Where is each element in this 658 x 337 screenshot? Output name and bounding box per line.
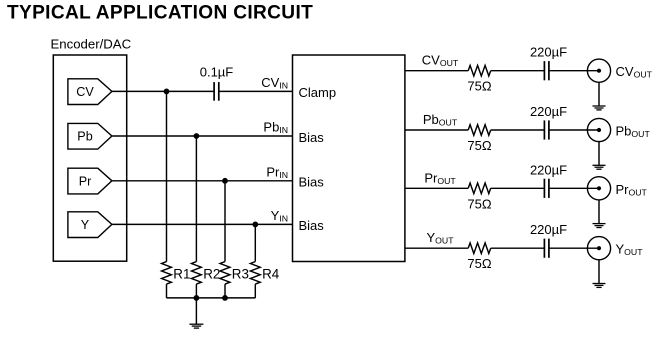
wire capacitor to connector row Pb	[549, 129, 599, 131]
junction node row CV	[164, 89, 170, 95]
svg-text:Bias: Bias	[299, 130, 325, 145]
ground row Y	[593, 283, 606, 285]
resistor R2	[192, 262, 202, 285]
svg-text:Bias: Bias	[299, 175, 325, 190]
ground bus wire	[167, 297, 256, 299]
encoder/DAC block U1	[53, 55, 126, 261]
wire junction to resistor R4	[254, 224, 256, 261]
wire Pr tag to PrIN pin	[112, 180, 293, 182]
capacitor 220uF row Y	[543, 239, 545, 258]
wire resistor to capacitor 220uF row Y	[491, 247, 545, 249]
svg-text:75Ω: 75Ω	[467, 256, 491, 271]
connector jack PrOUT	[587, 177, 610, 200]
resistor R4	[250, 262, 260, 285]
wire junction to resistor R1	[166, 91, 168, 261]
svg-text:Pb: Pb	[77, 130, 92, 144]
connector jack CVOUT	[587, 59, 610, 82]
wire CVOUT pin to resistor	[405, 70, 468, 72]
svg-text:75Ω: 75Ω	[467, 138, 491, 153]
junction ground bus / R3	[222, 295, 228, 301]
encoder output pin CV	[68, 79, 112, 105]
junction ground bus / R2	[194, 295, 200, 301]
svg-text:220µF: 220µF	[530, 45, 567, 60]
ground row Pb	[593, 164, 606, 166]
svg-text:PbOUT: PbOUT	[423, 112, 458, 128]
svg-text:Bias: Bias	[299, 218, 325, 233]
svg-text:0.1µF: 0.1µF	[200, 65, 234, 80]
wire connector to ground row Y	[598, 260, 600, 284]
svg-text:R1: R1	[173, 267, 190, 282]
wire CV tag to capacitor C1	[112, 90, 214, 92]
svg-text:YOUT: YOUT	[616, 242, 644, 258]
wire PrOUT pin to resistor	[405, 187, 468, 189]
svg-text:220µF: 220µF	[530, 162, 567, 177]
svg-text:220µF: 220µF	[530, 222, 567, 237]
wire R3 to ground bus	[224, 284, 226, 298]
svg-text:75Ω: 75Ω	[467, 196, 491, 211]
wire connector to ground row CV	[598, 82, 600, 106]
svg-text:Y: Y	[81, 218, 90, 232]
wire capacitor to connector row CV	[549, 70, 599, 72]
svg-text:YOUT: YOUT	[426, 230, 454, 246]
svg-text:Clamp: Clamp	[299, 85, 337, 100]
resistor 75 ohm row CV	[468, 65, 491, 76]
connector jack YOUT	[587, 237, 610, 260]
wire capacitor to connector row Pr	[549, 187, 599, 189]
svg-text:R2: R2	[203, 267, 220, 282]
wire capacitor to connector row Y	[549, 247, 599, 249]
svg-text:R4: R4	[262, 267, 280, 282]
wire R4 to ground bus	[254, 284, 256, 298]
junction node row Pb	[194, 133, 200, 139]
encoder output pin Pr	[68, 168, 112, 194]
svg-text:CV: CV	[76, 85, 94, 99]
wire Pb tag to PbIN pin	[112, 135, 293, 137]
resistor 75 ohm row Pb	[468, 125, 491, 136]
wire R2 to ground bus	[195, 284, 197, 298]
capacitor C1 0.1uF	[213, 82, 215, 101]
wire resistor to capacitor 220uF row Pr	[491, 187, 545, 189]
resistor 75 ohm row Y	[468, 243, 491, 254]
ground	[195, 298, 197, 324]
resistor R1	[162, 262, 172, 285]
capacitor 220uF row Pb	[543, 120, 545, 139]
svg-text:TYPICAL APPLICATION CIRCUIT: TYPICAL APPLICATION CIRCUIT	[7, 3, 313, 24]
wire resistor to capacitor 220uF row Pb	[491, 129, 545, 131]
capacitor 220uF row CV	[543, 61, 545, 80]
wire connector to ground row Pr	[598, 200, 600, 224]
wire PbOUT pin to resistor	[405, 129, 468, 131]
wire junction to resistor R2	[195, 136, 197, 262]
wire capacitor C1 to CVin pin	[219, 90, 293, 92]
connector jack PbOUT	[587, 118, 610, 141]
resistor R3	[220, 262, 230, 285]
junction node row Pr	[222, 178, 228, 184]
svg-text:75Ω: 75Ω	[467, 79, 491, 94]
svg-text:YIN: YIN	[271, 208, 288, 224]
wire junction to resistor R3	[224, 181, 226, 262]
wire connector to ground row Pb	[598, 141, 600, 165]
capacitor 220uF row Pr	[543, 179, 545, 198]
svg-text:PbOUT: PbOUT	[616, 124, 651, 140]
wire YOUT pin to resistor	[405, 247, 468, 249]
ground row CV	[593, 105, 606, 107]
encoder output pin Y	[68, 212, 112, 238]
junction node row Y	[252, 222, 258, 228]
svg-text:PrOUT: PrOUT	[424, 170, 456, 186]
svg-text:220µF: 220µF	[530, 104, 567, 119]
ground row Pr	[593, 223, 606, 225]
svg-text:Pr: Pr	[79, 174, 92, 188]
svg-text:R3: R3	[232, 267, 249, 282]
svg-text:CVOUT: CVOUT	[422, 53, 459, 69]
wire Y tag to YIN pin	[112, 223, 293, 225]
resistor 75 ohm row Pr	[468, 183, 491, 194]
main IC block U2	[293, 55, 405, 262]
svg-text:PrOUT: PrOUT	[616, 182, 648, 198]
svg-text:PrIN: PrIN	[266, 164, 288, 180]
svg-text:Encoder/DAC: Encoder/DAC	[51, 37, 132, 52]
svg-text:CVOUT: CVOUT	[616, 64, 653, 80]
wire resistor to capacitor 220uF row CV	[491, 70, 545, 72]
svg-text:CVIN: CVIN	[261, 75, 288, 91]
svg-text:PbIN: PbIN	[263, 120, 288, 136]
encoder output pin Pb	[68, 123, 112, 149]
wire R1 to ground bus	[166, 284, 168, 298]
